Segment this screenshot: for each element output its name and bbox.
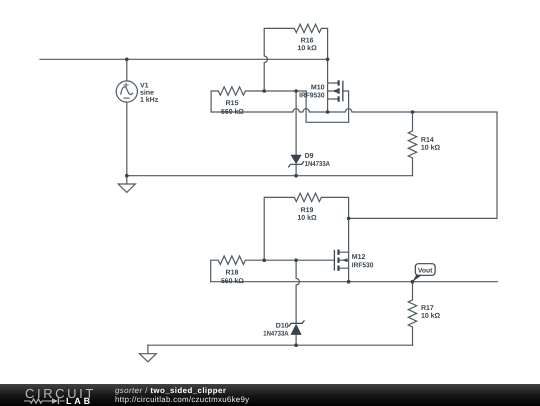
- transistor M10: [328, 59, 343, 112]
- svg-text:10 kΩ: 10 kΩ: [297, 215, 317, 222]
- node Vout flag: [412, 264, 435, 282]
- junction M12 source on output row: [347, 280, 351, 284]
- wire gate loop M10: [306, 91, 349, 122]
- resistor R15: [211, 87, 306, 112]
- svg-text:D9: D9: [305, 153, 314, 160]
- wire V1 top lead: [126, 59, 128, 80]
- svg-text:560 kΩ: 560 kΩ: [221, 278, 244, 285]
- svg-text:IRF9530: IRF9530: [299, 92, 324, 99]
- svg-text:1N4733A: 1N4733A: [263, 331, 288, 338]
- svg-text:IRF530: IRF530: [352, 262, 374, 269]
- svg-text:M10: M10: [311, 84, 325, 91]
- junction R15 right / R16 left: [262, 89, 266, 93]
- wire M12 drain vertical: [348, 218, 350, 252]
- wire bottom rail y=345.2: [148, 344, 413, 346]
- junction R19 right / M12 drain: [347, 217, 351, 221]
- ground GND2: [140, 345, 157, 362]
- junction Vout / R17 top: [411, 280, 415, 284]
- wire row y=175.7 to R14: [127, 175, 413, 177]
- junction R18 wire / R19 left: [262, 258, 266, 262]
- junction M10 drain on mid row: [326, 110, 330, 114]
- junction R15 wire / D9 top: [294, 89, 298, 93]
- resistor R16: [264, 24, 327, 91]
- junction R14 top: [411, 110, 415, 114]
- junction V1 bottom / ground row: [125, 174, 129, 178]
- logo squiggle: [24, 397, 65, 403]
- ground GND1: [118, 176, 135, 193]
- voltage source V1: [116, 81, 137, 102]
- svg-text:10 kΩ: 10 kΩ: [421, 145, 441, 152]
- junction D10 bottom: [294, 343, 298, 347]
- wire top rail y=59.3: [40, 58, 328, 60]
- svg-text:1N4733A: 1N4733A: [305, 161, 330, 168]
- junction V1 top rail: [125, 58, 129, 62]
- wire V1 bottom lead: [126, 102, 128, 176]
- svg-text:Vout: Vout: [418, 267, 433, 274]
- resistor R19: [264, 193, 348, 260]
- svg-text:R15: R15: [226, 100, 239, 107]
- svg-text:1 kHz: 1 kHz: [140, 97, 159, 104]
- svg-text:R14: R14: [421, 137, 434, 144]
- wire row y=281.7: [211, 281, 498, 283]
- svg-text:560 kΩ: 560 kΩ: [221, 109, 244, 116]
- svg-text:M12: M12: [352, 254, 366, 261]
- svg-text:D10: D10: [276, 323, 289, 330]
- junction D9 bottom: [294, 174, 298, 178]
- svg-text:10 kΩ: 10 kΩ: [297, 45, 317, 52]
- resistor R17: [408, 282, 416, 346]
- svg-text:10 kΩ: 10 kΩ: [421, 313, 441, 320]
- zener diode D9: [289, 91, 304, 176]
- resistor R18: [211, 256, 335, 282]
- svg-text:R18: R18: [226, 269, 239, 276]
- svg-text:R17: R17: [421, 305, 434, 312]
- transistor M12: [334, 250, 348, 282]
- svg-text:R16: R16: [301, 38, 314, 45]
- resistor R14: [408, 112, 416, 176]
- wire mid row y=112 with hops: [211, 109, 497, 219]
- svg-text:sine: sine: [140, 90, 154, 97]
- svg-text:V1: V1: [140, 83, 149, 90]
- svg-text:R19: R19: [301, 207, 314, 214]
- zener diode D10: [289, 260, 304, 345]
- junction R16 right / M10 source: [326, 58, 330, 62]
- junction gate row / D10 top: [294, 258, 298, 262]
- footer bar: [0, 384, 540, 406]
